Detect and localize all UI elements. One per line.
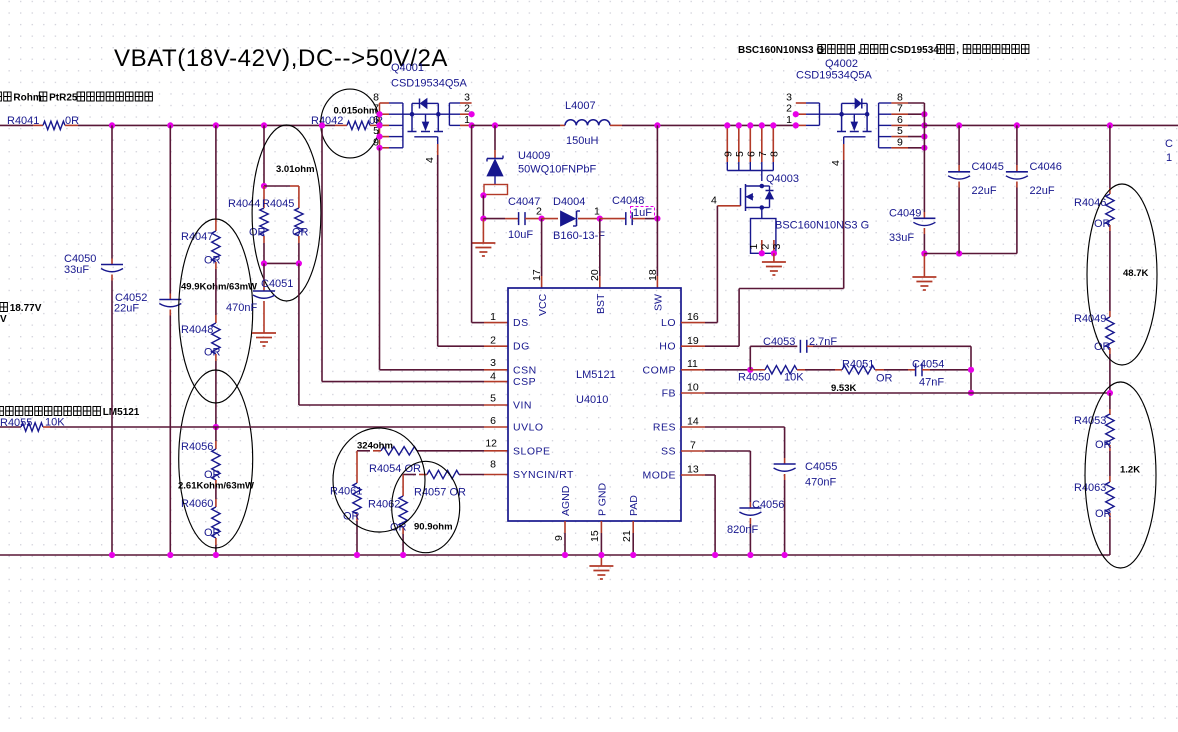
svg-text:CSP: CSP: [513, 376, 536, 388]
wire R4053 to R4063: [1109, 451, 1111, 476]
junction rail U4009: [492, 122, 498, 128]
svg-text:10: 10: [687, 382, 699, 394]
junction rail SW: [654, 122, 660, 128]
junction rail R4046: [1107, 122, 1113, 128]
transistor Q4002 body: [820, 113, 842, 115]
svg-text:OR: OR: [1094, 218, 1111, 230]
capacitor C4055 470nF: [774, 463, 796, 465]
svg-text:OR: OR: [1094, 341, 1111, 353]
svg-text:18: 18: [647, 269, 659, 281]
transistor Q4001 right pins 3 2 1: [448, 103, 450, 125]
capacitor C4045 22uF: [958, 125, 960, 165]
resistor R4042 0.015ohm sense: [335, 124, 347, 126]
junction rail C4045: [956, 122, 962, 128]
body diode Q4003: [762, 185, 770, 187]
wire U4009 to C4047 node: [482, 195, 484, 218]
wire VIN pin5: [298, 263, 300, 405]
svg-text:R4051: R4051: [842, 359, 874, 371]
svg-text:SS: SS: [661, 446, 676, 458]
svg-text:C4056: C4056: [752, 499, 784, 511]
svg-text:12: 12: [485, 438, 497, 450]
wire node1 to C4048: [600, 218, 626, 220]
svg-text:22uF: 22uF: [972, 185, 997, 197]
svg-text:1: 1: [786, 114, 792, 126]
svg-text:10uF: 10uF: [508, 229, 533, 241]
svg-text:CSD19534Q5A: CSD19534Q5A: [391, 78, 467, 90]
capacitor C4054 47nF: [908, 369, 916, 371]
inductor L4007: [565, 120, 610, 126]
wire rail Q4001 to L4007: [472, 124, 560, 126]
svg-text:PAD: PAD: [628, 495, 640, 516]
wire C4049 to C4045 C4046 bottoms: [924, 253, 1017, 255]
svg-text:COMP: COMP: [643, 364, 677, 376]
svg-text:Q4002: Q4002: [825, 58, 858, 70]
svg-text:5: 5: [897, 125, 903, 137]
svg-text:OR: OR: [1095, 439, 1112, 451]
wire rail to R4047: [215, 125, 217, 218]
svg-text:R4050: R4050: [738, 372, 770, 384]
svg-text:CSN: CSN: [513, 364, 537, 376]
svg-text:OR: OR: [204, 347, 221, 359]
svg-text:R4060: R4060: [181, 498, 213, 510]
wire UVLO pin6 net: [0, 426, 21, 428]
wire VBAT rail left: [0, 124, 33, 126]
wire VCC pin 17: [541, 219, 543, 276]
transistor Q4001 left pins 8 7 6 5 9: [380, 102, 390, 104]
wire SS pin7 to C4056: [681, 450, 705, 452]
ellipse around R4057 R4062: [392, 461, 460, 552]
diode D4004 B160-13-F: [561, 211, 576, 226]
svg-text:2: 2: [536, 206, 542, 218]
svg-text:9: 9: [897, 136, 903, 148]
pin-end markers Q4001 right: [469, 111, 475, 117]
svg-text:7: 7: [757, 151, 769, 157]
svg-text:1: 1: [490, 311, 496, 323]
svg-text:1uF: 1uF: [633, 207, 652, 219]
resistor R4061 0R: [353, 483, 361, 514]
svg-text:VIN: VIN: [513, 400, 532, 412]
resistor R4047 0R: [212, 231, 220, 262]
ellipse around R4044 R4045: [252, 125, 321, 301]
svg-text:4: 4: [711, 195, 717, 207]
note reset low disables LM5121: [0, 407, 3, 416]
wire CSN pin3: [379, 148, 381, 370]
svg-text:DS: DS: [513, 317, 529, 329]
pin-end markers Q4001 left: [376, 111, 382, 117]
svg-text:HO: HO: [659, 341, 676, 353]
wire RES pin14 to C4055: [681, 426, 705, 428]
svg-text:90.9ohm: 90.9ohm: [414, 522, 453, 533]
svg-text:22uF: 22uF: [114, 303, 139, 315]
ground at C4051: [252, 332, 276, 334]
svg-text:U4010: U4010: [576, 394, 608, 406]
svg-text:LM5121: LM5121: [576, 369, 616, 381]
wire R4044 to R4045 top: [264, 185, 290, 187]
junction rail R4044: [261, 122, 267, 128]
svg-text:SYNCIN/RT: SYNCIN/RT: [513, 469, 574, 481]
svg-text:LM5121: LM5121: [103, 407, 140, 418]
svg-text:L4007: L4007: [565, 100, 596, 112]
svg-text:BST: BST: [595, 293, 607, 314]
svg-text:2: 2: [760, 244, 772, 250]
wire rail L4007 to Q4002: [622, 124, 796, 126]
wire AGND pin9: [564, 521, 566, 533]
note left rohm resistor: [0, 92, 1, 101]
svg-text:R4062: R4062: [368, 499, 400, 511]
svg-text:49.9Kohm/63mW: 49.9Kohm/63mW: [181, 282, 257, 293]
svg-text:,: ,: [956, 45, 959, 56]
svg-text:4: 4: [424, 157, 436, 163]
svg-text:UVLO: UVLO: [513, 422, 544, 434]
svg-text:8: 8: [768, 151, 780, 157]
svg-text:50WQ10FNPbF: 50WQ10FNPbF: [518, 164, 597, 176]
svg-text:22uF: 22uF: [1030, 185, 1055, 197]
svg-text:R4063: R4063: [1074, 482, 1106, 494]
wire FB pin10: [681, 392, 705, 394]
ground at Q4003 source: [773, 253, 775, 262]
svg-text:1: 1: [594, 206, 600, 218]
svg-text:BSC160N10NS3 G: BSC160N10NS3 G: [775, 220, 869, 232]
svg-text:R4048: R4048: [181, 324, 213, 336]
svg-text:SW: SW: [653, 294, 665, 311]
wire SLOPE pin12: [417, 450, 484, 452]
svg-text:11: 11: [687, 358, 698, 370]
resistor R4049 0R: [1106, 317, 1114, 348]
svg-text:SLOPE: SLOPE: [513, 445, 551, 457]
junction FB feedback: [968, 390, 974, 396]
svg-text:OR: OR: [204, 469, 221, 481]
body diode Q4001: [419, 99, 421, 109]
capacitor C4049 33uF: [913, 217, 935, 219]
junction R4045 bottom: [296, 260, 302, 266]
wire CSP pin4: [321, 125, 323, 381]
svg-text:D4004: D4004: [553, 196, 585, 208]
resistor R4063 0R: [1106, 482, 1114, 513]
junction U4009 box corner: [480, 192, 486, 198]
svg-text:17: 17: [531, 269, 543, 281]
ellipse around R4047 R4048: [179, 219, 253, 403]
junction rail C4046: [1014, 122, 1020, 128]
svg-text:6: 6: [897, 114, 903, 126]
wire C4047 to node 2: [525, 218, 542, 220]
svg-text:R4044: R4044: [228, 198, 260, 210]
transistor Q4001 body: [403, 113, 412, 115]
svg-text:C4055: C4055: [805, 461, 837, 473]
svg-text:20: 20: [589, 269, 601, 281]
wire C4047 left lead: [483, 218, 505, 220]
junction SW C4048: [654, 216, 660, 222]
ellipse around R4056 R4060: [179, 370, 253, 548]
wire Q4002 drain to C4049: [923, 103, 925, 212]
gate lead Q4002 pin 4: [844, 136, 866, 138]
wire R4046 to R4049: [1109, 231, 1111, 311]
junction C4054 right: [968, 367, 974, 373]
junction FB divider: [1107, 390, 1113, 396]
svg-text:R4047: R4047: [181, 231, 213, 243]
svg-text:R4046: R4046: [1074, 197, 1106, 209]
svg-text:470nF: 470nF: [226, 302, 257, 314]
svg-text:3.01ohm: 3.01ohm: [276, 164, 315, 175]
svg-text:7: 7: [690, 440, 696, 452]
svg-text:16: 16: [687, 311, 699, 323]
wire DG pin2 from Q4001 gate: [437, 155, 439, 346]
wire PAD pin21: [632, 521, 634, 533]
svg-text:19: 19: [687, 335, 699, 347]
svg-text:324ohm: 324ohm: [357, 441, 393, 452]
svg-text:Q4003: Q4003: [766, 173, 799, 185]
wire rail right of Q4002: [924, 124, 1178, 126]
junction rail C4052: [167, 122, 173, 128]
ellipse around R4053 R4063: [1085, 382, 1156, 568]
svg-text:5: 5: [734, 151, 746, 157]
resistor R4048 0R: [215, 315, 217, 323]
svg-text:C4045: C4045: [972, 161, 1004, 173]
substrate arrow Q4002: [853, 114, 855, 122]
wire SLOPE corner to R4061: [357, 450, 370, 452]
svg-text:C4046: C4046: [1030, 161, 1062, 173]
wire R4048 to UVLO: [215, 361, 217, 427]
gate lead Q4003 pin 4: [717, 205, 740, 207]
svg-text:CSD19534Q5A: CSD19534Q5A: [796, 70, 872, 82]
svg-text:OR: OR: [249, 227, 266, 239]
ellipse around R4054 R4061: [333, 428, 425, 532]
wire DS pin1 from Q4001: [471, 125, 473, 322]
svg-text:OR: OR: [204, 527, 221, 539]
svg-text:Rohm: Rohm: [13, 93, 41, 104]
resistor R4057 90.9ohm: [419, 474, 427, 476]
svg-text:P GND: P GND: [597, 483, 609, 516]
svg-text:C4054: C4054: [912, 359, 944, 371]
svg-text:OR: OR: [1095, 508, 1112, 520]
wire SYNCIN pin8: [459, 474, 484, 476]
svg-text:48.7K: 48.7K: [1123, 268, 1148, 279]
svg-text:820nF: 820nF: [727, 524, 758, 536]
svg-text:3: 3: [490, 357, 496, 369]
svg-text:15: 15: [589, 530, 601, 542]
svg-text:2: 2: [786, 103, 792, 115]
svg-text:0.015ohm: 0.015ohm: [334, 106, 378, 117]
wire HO pin19 to Q4002 gate: [681, 345, 705, 347]
junction R4044 top: [261, 183, 267, 189]
junction node 2 VCC: [539, 216, 545, 222]
svg-text:DG: DG: [513, 341, 530, 353]
note left 18.77V: [0, 303, 7, 312]
gate lead Q4001 pin 4: [414, 136, 437, 138]
transistor Q4003 body: [740, 188, 742, 206]
svg-text:PtR25: PtR25: [49, 93, 78, 104]
capacitor C4048 1uF: [625, 212, 627, 225]
ground at PGND: [600, 555, 602, 566]
resistor R4053 0R: [1109, 393, 1111, 409]
svg-text:AGND: AGND: [560, 485, 572, 516]
svg-text:Q4001: Q4001: [391, 62, 424, 74]
svg-text:LO: LO: [661, 317, 676, 329]
svg-text:8: 8: [897, 92, 903, 104]
ground at C4049: [923, 254, 925, 278]
svg-text:6: 6: [490, 415, 496, 427]
svg-text:C4051: C4051: [261, 278, 293, 290]
svg-text:CSD19534: CSD19534: [890, 45, 939, 56]
gate plate Q4001: [408, 131, 417, 133]
svg-text:BSC160N10NS3 G: BSC160N10NS3 G: [738, 45, 824, 56]
svg-text:8: 8: [490, 459, 496, 471]
svg-text:OR: OR: [204, 255, 221, 267]
svg-text:R4056: R4056: [181, 441, 213, 453]
body diode Q4002: [855, 99, 861, 109]
svg-text:9: 9: [722, 151, 734, 157]
ground at C4047 node: [482, 219, 484, 243]
svg-text:5: 5: [490, 393, 496, 405]
junction COMP node: [747, 367, 753, 373]
wire MODE pin13: [681, 474, 705, 476]
resistor R4044 0R: [263, 186, 265, 208]
svg-text:C4049: C4049: [889, 208, 921, 220]
svg-text:1: 1: [748, 244, 760, 250]
svg-text:7: 7: [897, 103, 903, 115]
capacitor C4051 470nF: [263, 263, 265, 285]
svg-text:MODE: MODE: [643, 470, 677, 482]
wire node2 to D4004: [542, 218, 558, 220]
wire PGND pin15: [600, 521, 602, 533]
pin-end markers Q4002 right: [921, 111, 927, 117]
wire rail to R4046: [1109, 125, 1111, 188]
op-amp U4010 LM5121 body: [508, 288, 681, 521]
svg-text:1: 1: [1166, 152, 1172, 164]
wire LO pin16 to Q4003 gate: [681, 322, 705, 324]
svg-text:FB: FB: [662, 388, 676, 400]
svg-text:10K: 10K: [784, 372, 804, 384]
svg-text:R4041: R4041: [7, 115, 39, 127]
capacitor C4046 22uF: [1016, 125, 1018, 165]
wire D4004 to node 1: [578, 218, 600, 220]
capacitor C4056 820nF: [739, 507, 761, 509]
svg-text:U4009: U4009: [518, 150, 550, 162]
wire R4044 R4045 bottoms: [264, 262, 299, 264]
junctions on ground rail: [109, 552, 115, 558]
ellipse around R4046 R4049: [1087, 184, 1157, 365]
svg-text:C: C: [1165, 138, 1173, 150]
wire SW pin 18: [656, 125, 658, 276]
junction node 1 BST: [597, 216, 603, 222]
svg-text:3: 3: [786, 92, 792, 104]
svg-text:150uH: 150uH: [566, 135, 598, 147]
transistor Q4002 left pins 3 2 1: [796, 102, 806, 104]
svg-text:1.2K: 1.2K: [1120, 465, 1140, 476]
svg-text:R4055: R4055: [0, 417, 32, 429]
resistor R4054 324ohm: [373, 450, 381, 452]
junction rail R4047: [213, 122, 219, 128]
svg-text:R4045: R4045: [262, 198, 294, 210]
svg-text:C4053: C4053: [763, 336, 795, 348]
svg-text:13: 13: [687, 464, 699, 476]
pin-end markers Q4002 left: [793, 111, 799, 117]
wire rail R4041 to R4042: [78, 124, 335, 126]
capacitor C4047 10uF: [518, 212, 520, 225]
svg-text:470nF: 470nF: [805, 477, 836, 489]
diode U4009: [494, 125, 496, 150]
wire ground rail: [0, 554, 1110, 556]
capacitor C4052 22uF: [169, 125, 171, 293]
transistor Q4003 source pins 1 2 3: [761, 208, 763, 219]
wire SYNC corner to R4062: [403, 474, 416, 476]
junction rail C4050: [109, 122, 115, 128]
svg-text:4: 4: [830, 160, 842, 166]
svg-text:B160-13-F: B160-13-F: [553, 230, 605, 242]
svg-text:0R: 0R: [65, 115, 79, 127]
wire C4048 to SW column: [632, 218, 645, 220]
svg-text:33uF: 33uF: [889, 232, 914, 244]
resistor R4045 0R: [298, 186, 300, 208]
capacitor C4050 33uF: [111, 125, 113, 258]
resistor R4062 0R: [399, 496, 407, 527]
svg-text:OR: OR: [876, 373, 893, 385]
svg-text:V: V: [0, 314, 7, 325]
resistor R4051 0R: [835, 369, 842, 371]
resistor R4041: [33, 124, 43, 126]
junction C4047 node: [480, 216, 486, 222]
svg-text:18.77V: 18.77V: [10, 303, 42, 314]
svg-text:R4042: R4042: [311, 115, 343, 127]
wire BST pin 20: [599, 219, 601, 276]
svg-text:2.7nF: 2.7nF: [809, 336, 837, 348]
wire rail to R4044 node: [263, 125, 265, 186]
junction R4044 bottom: [261, 260, 267, 266]
svg-text:4: 4: [490, 371, 496, 383]
transistor Q4003 drain pins 9 5 6 7 8: [726, 125, 728, 162]
resistor R4050 10K: [750, 369, 765, 371]
svg-text:9: 9: [553, 535, 565, 541]
junction rail CSP: [319, 122, 325, 128]
svg-text:C4048: C4048: [612, 195, 644, 207]
svg-text:2: 2: [490, 335, 496, 347]
svg-text:6: 6: [745, 151, 757, 157]
svg-text:21: 21: [621, 530, 633, 542]
resistor R4055 10K: [21, 423, 43, 431]
svg-text:OR: OR: [292, 227, 309, 239]
resistor R4046 0R: [1106, 194, 1114, 225]
svg-text:RES: RES: [653, 422, 676, 434]
wire COMP pin11: [681, 369, 705, 371]
capacitor C4053 2.7nF branch: [749, 346, 751, 370]
substrate arrow Q4001: [425, 114, 427, 122]
svg-text:8: 8: [373, 92, 379, 104]
resistor R4056 0R: [215, 427, 217, 441]
svg-text:3: 3: [771, 244, 783, 250]
junction UVLO R-chain: [213, 424, 219, 430]
ellipse around R4042: [321, 89, 380, 158]
svg-text:VCC: VCC: [537, 293, 549, 316]
transistor Q4002 right pins 8 7 6 5 9: [878, 103, 880, 148]
resistor R4060 0R: [215, 487, 217, 499]
svg-text:33uF: 33uF: [64, 264, 89, 276]
svg-text:14: 14: [687, 416, 699, 428]
svg-text:47nF: 47nF: [919, 377, 944, 389]
junction C4049 bottom: [921, 250, 927, 256]
gate plate Q4002: [837, 131, 846, 133]
svg-text:3: 3: [464, 92, 470, 104]
substrate arrow Q4003: [746, 196, 754, 198]
wire R4047 to R4048: [215, 269, 217, 315]
